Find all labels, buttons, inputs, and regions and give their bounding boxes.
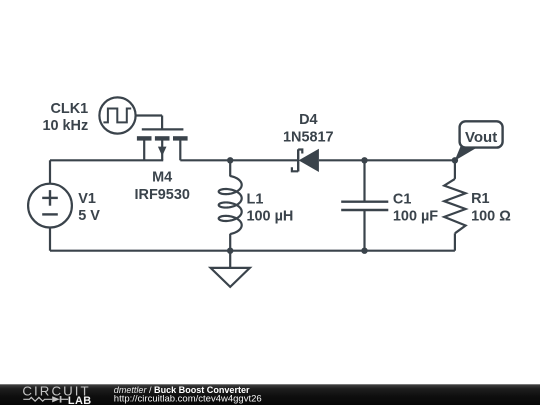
svg-text:CLK1: CLK1 — [50, 101, 88, 117]
svg-text:M4: M4 — [152, 170, 172, 186]
svg-text:V1: V1 — [78, 191, 96, 207]
svg-text:L1: L1 — [247, 191, 264, 207]
svg-text:5 V: 5 V — [78, 208, 100, 224]
svg-text:R1: R1 — [471, 191, 489, 207]
svg-text:Vout: Vout — [465, 129, 497, 146]
svg-text:100 Ω: 100 Ω — [471, 208, 511, 224]
svg-text:100 µF: 100 µF — [393, 209, 438, 225]
svg-text:D4: D4 — [299, 112, 317, 128]
svg-text:1N5817: 1N5817 — [283, 129, 334, 145]
svg-text:10 kHz: 10 kHz — [42, 118, 88, 134]
svg-text:100 µH: 100 µH — [247, 209, 294, 225]
svg-text:IRF9530: IRF9530 — [135, 187, 190, 203]
svg-text:LAB: LAB — [68, 395, 92, 405]
svg-text:C1: C1 — [393, 191, 411, 207]
svg-text:http://circuitlab.com/ctev4w4g: http://circuitlab.com/ctev4w4ggvt26 — [114, 394, 262, 405]
